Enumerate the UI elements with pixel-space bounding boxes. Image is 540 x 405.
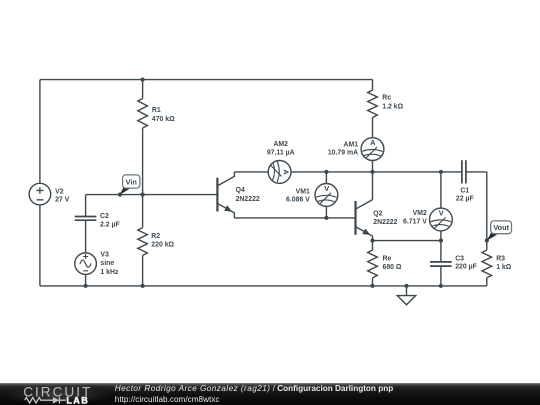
svg-text:C1: C1 [460, 187, 469, 194]
svg-text:A: A [282, 170, 291, 176]
svg-text:220 kΩ: 220 kΩ [151, 241, 174, 248]
svg-text:Vout: Vout [493, 223, 509, 232]
svg-text:R2: R2 [151, 233, 160, 240]
svg-text:6.086 V: 6.086 V [286, 197, 310, 204]
svg-text:V: V [324, 184, 329, 193]
svg-text:V3: V3 [100, 251, 109, 258]
svg-text:Re: Re [383, 256, 392, 263]
svg-text:VM2: VM2 [413, 210, 427, 217]
svg-text:1 kHz: 1 kHz [100, 269, 119, 276]
svg-text:C2: C2 [100, 213, 109, 220]
svg-text:LAB: LAB [66, 395, 89, 405]
svg-text:680 Ω: 680 Ω [383, 264, 402, 271]
svg-text:10.79 mA: 10.79 mA [328, 149, 358, 156]
svg-text:AM1: AM1 [344, 142, 359, 149]
svg-text:VM1: VM1 [296, 188, 310, 195]
svg-text:sine: sine [100, 260, 114, 267]
svg-text:2.2 µF: 2.2 µF [100, 221, 120, 228]
svg-text:6.717 V: 6.717 V [403, 218, 427, 225]
svg-text:Rc: Rc [382, 95, 391, 102]
svg-text:V: V [439, 209, 444, 218]
svg-text:AM2: AM2 [273, 141, 288, 148]
svg-text:R3: R3 [496, 256, 505, 263]
svg-text:27 V: 27 V [55, 196, 70, 203]
svg-text:R1: R1 [152, 107, 161, 114]
svg-text:1.2 kΩ: 1.2 kΩ [382, 103, 403, 110]
svg-text:470 kΩ: 470 kΩ [152, 116, 175, 123]
svg-text:Vin: Vin [126, 177, 137, 186]
svg-text:97.11 µA: 97.11 µA [267, 149, 295, 156]
svg-text:2N2222: 2N2222 [373, 219, 397, 226]
svg-text:Q2: Q2 [373, 210, 382, 217]
svg-text:A: A [370, 138, 376, 147]
svg-text:22 µF: 22 µF [456, 196, 474, 203]
svg-text:C3: C3 [455, 256, 464, 263]
svg-text:V2: V2 [55, 188, 64, 195]
svg-text:220 µF: 220 µF [455, 263, 477, 270]
svg-text:2N2222: 2N2222 [236, 196, 260, 203]
svg-text:Q4: Q4 [236, 187, 245, 194]
svg-text:1 kΩ: 1 kΩ [496, 264, 512, 271]
